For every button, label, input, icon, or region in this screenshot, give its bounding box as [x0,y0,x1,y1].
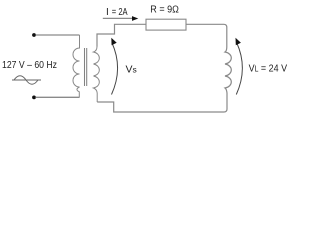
svg-text:I: I [106,7,109,18]
wire: source bottom to primary [36,96,80,98]
svg-text:127 V – 60 Hz: 127 V – 60 Hz [2,60,57,71]
VL arrow arc [236,43,242,95]
Vs arrowhead [111,38,116,45]
transformer core lines [84,48,86,86]
current arrow shaft [103,17,133,19]
node: source top terminal dot [32,33,36,37]
Vs arrow arc [112,43,118,95]
wire: primary bottom corner [36,96,80,98]
svg-text:R = 9Ω: R = 9Ω [150,5,179,16]
svg-text:VL = 24 V: VL = 24 V [249,62,288,74]
node: source bottom terminal dot [32,96,36,100]
inductor load winding [224,47,231,112]
transformer T1 primary winding [73,35,79,97]
AC source sine symbol [12,79,41,81]
VL arrowhead [236,38,241,45]
transformer T1 secondary winding [94,47,100,103]
wire: source top to primary [36,34,80,36]
wire: secondary bottom step [97,102,224,112]
resistor R [146,19,186,30]
wire: secondary top step to resistor [97,24,146,46]
current arrowhead [132,16,138,21]
svg-text:= 2A: = 2A [112,7,128,18]
svg-text:Vs: Vs [126,63,137,75]
wire: resistor to right branch with rounded corner [186,24,227,47]
